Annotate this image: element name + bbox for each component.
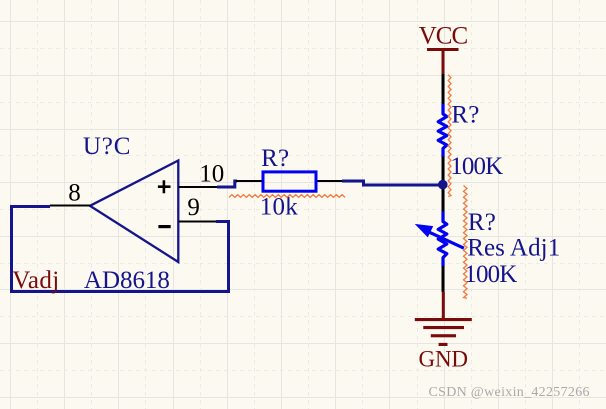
svg-text:CSDN @weixin_42257266: CSDN @weixin_42257266	[429, 385, 590, 400]
potentiometer R? Res Adj1 (zigzag with wiper arrow)	[418, 212, 464, 267]
error squiggle along Res Adj1	[464, 186, 468, 299]
wire resistor to junction node	[342, 181, 444, 185]
node junction dot	[438, 180, 448, 190]
svg-text:VCC: VCC	[419, 23, 469, 50]
svg-text:R?: R?	[261, 145, 289, 172]
svg-text:U?C: U?C	[83, 133, 130, 160]
resistor R? 10k (rect body with pins)	[236, 172, 343, 191]
svg-text:AD8618: AD8618	[84, 267, 170, 294]
svg-text:8: 8	[68, 180, 81, 207]
wire pin10 to resistor R (10k)	[217, 181, 237, 187]
op-amp U?C body (triangle with + and - marks)	[90, 161, 178, 263]
svg-text:Res Adj1: Res Adj1	[467, 235, 560, 262]
svg-text:R?: R?	[468, 209, 496, 236]
svg-text:Vadj: Vadj	[12, 267, 59, 294]
pin 9 (inverting input) with pin number	[179, 194, 217, 222]
svg-text:100K: 100K	[450, 153, 503, 180]
wire feedback loop (output to inverting input)	[12, 207, 229, 292]
wire VCC to resistor R (100K)	[442, 74, 445, 105]
svg-text:GND: GND	[419, 347, 469, 372]
svg-text:9: 9	[187, 194, 200, 221]
ground GND	[415, 292, 472, 372]
power port VCC	[419, 23, 469, 75]
svg-text:R?: R?	[451, 102, 479, 129]
pin 8 (output) with pin number	[50, 180, 91, 207]
resistor R? 100K (zigzag)	[438, 104, 447, 157]
svg-text:10: 10	[199, 161, 224, 188]
error squiggle under 10k resistor	[229, 195, 345, 198]
svg-text:100K: 100K	[464, 261, 517, 288]
pin 10 (non-inverting input) with pin number	[179, 161, 225, 188]
wire Res Adj1 to GND	[442, 266, 445, 292]
error squiggle along VCC wire	[448, 75, 451, 197]
wire 100K resistor to junction	[442, 157, 445, 213]
